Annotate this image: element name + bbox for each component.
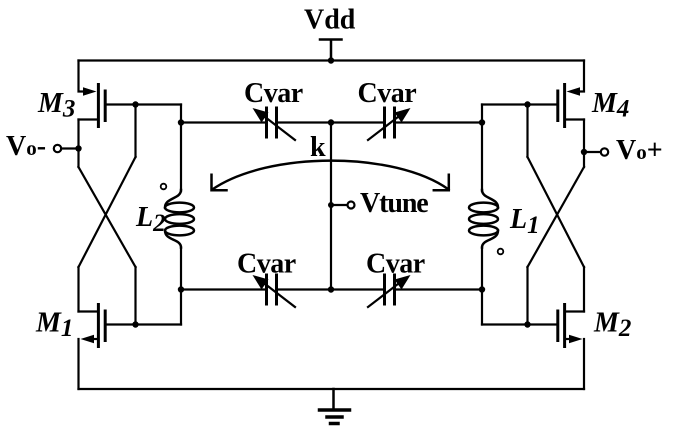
- varactor Cvar bottom-left: [253, 275, 296, 307]
- wire cross-couple left diag A: [79, 167, 136, 267]
- varactor Cvar bottom-right: [368, 275, 411, 307]
- wire top rail: [79, 59, 585, 61]
- svg-text:Vo+: Vo+: [616, 135, 663, 166]
- svg-text:Vdd: Vdd: [304, 5, 356, 36]
- node center bottom junction: [328, 286, 334, 292]
- svg-text:k: k: [310, 132, 326, 163]
- wire top varactor row: [181, 121, 482, 123]
- svg-text:L1: L1: [509, 204, 540, 239]
- svg-text:M1: M1: [35, 308, 73, 343]
- node left tank bottom junction: [178, 286, 184, 292]
- node M1 gate junction: [132, 321, 138, 327]
- wire right to M2 gate dot: [526, 267, 528, 325]
- svg-text:Vo-: Vo-: [6, 131, 46, 162]
- ground: [320, 389, 350, 424]
- node right tank bottom junction: [479, 286, 485, 292]
- node M4 gate junction: [524, 101, 530, 107]
- wire M4 gate lead: [482, 103, 556, 105]
- node M3 gate junction: [132, 101, 138, 107]
- wire bottom varactor row: [181, 288, 482, 290]
- inductor L2: [165, 123, 194, 290]
- node M2 gate junction: [524, 321, 530, 327]
- wire Vo+ to terminal: [584, 151, 601, 153]
- transistor M1: [79, 305, 106, 347]
- node Vtune junction: [328, 202, 334, 208]
- Vdd power symbol: [320, 40, 342, 61]
- wire cross-couple left diag B: [79, 157, 136, 267]
- wire right tank top: [481, 105, 483, 123]
- transistor M2: [558, 305, 584, 347]
- L2 polarity dot: [161, 184, 167, 190]
- terminal Vo- circle: [54, 145, 61, 152]
- inductor L1: [469, 123, 498, 290]
- transistor M3: [79, 85, 106, 127]
- wire left to M1 gate dot: [134, 267, 136, 325]
- wire M3 drain down: [77, 120, 79, 168]
- wire M1 gate lead: [107, 323, 181, 325]
- wire cross-couple right diag A: [528, 167, 585, 267]
- wire cross-couple right vertical from M4 gate: [526, 105, 528, 158]
- wire M2 gate lead: [482, 323, 556, 325]
- svg-text:Cvar: Cvar: [244, 78, 303, 109]
- svg-text:Cvar: Cvar: [358, 78, 417, 109]
- wire right tank bottom: [481, 290, 483, 325]
- wire M2 source to bottom rail: [583, 339, 585, 389]
- wire left tank top: [180, 105, 182, 123]
- node Vdd junction: [328, 57, 334, 63]
- wire M3 gate lead: [107, 103, 181, 105]
- wire center vertical: [330, 123, 332, 290]
- terminal Vo+ circle: [601, 148, 608, 155]
- wire M4 source from rail: [573, 61, 584, 92]
- varactor Cvar top-left: [253, 108, 296, 140]
- varactor Cvar top-right: [368, 108, 411, 140]
- transistor M4: [558, 85, 584, 127]
- node Vo+ junction: [581, 149, 587, 155]
- wire M4 drain down: [583, 120, 585, 168]
- wire left tank bottom: [180, 290, 182, 325]
- svg-text:L2: L2: [135, 202, 166, 237]
- svg-text:Vtune: Vtune: [360, 188, 428, 219]
- wire Vtune tap: [331, 204, 348, 206]
- svg-text:M4: M4: [591, 88, 629, 123]
- terminal Vtune circle: [348, 202, 355, 209]
- svg-text:Cvar: Cvar: [237, 249, 296, 280]
- wire right to M2 drain: [583, 267, 585, 312]
- wire M1 source to bottom rail: [77, 339, 79, 389]
- wire bottom rail: [79, 388, 585, 390]
- svg-text:M3: M3: [37, 88, 75, 123]
- L1 polarity dot: [498, 249, 504, 255]
- node left tank top junction: [178, 119, 184, 125]
- wire Vo- to node: [61, 147, 78, 149]
- svg-text:M2: M2: [593, 308, 631, 343]
- wire cross-couple right diag B: [528, 157, 585, 267]
- node Vo- junction: [75, 145, 81, 151]
- wire left to M1 drain: [77, 267, 79, 312]
- wire M3 source from rail: [79, 61, 91, 92]
- node right tank top junction: [479, 119, 485, 125]
- svg-text:Cvar: Cvar: [366, 249, 425, 280]
- wire cross-couple left vertical from M3 gate: [134, 105, 136, 158]
- coupling arrow k: [212, 161, 449, 191]
- node center top junction: [328, 119, 334, 125]
